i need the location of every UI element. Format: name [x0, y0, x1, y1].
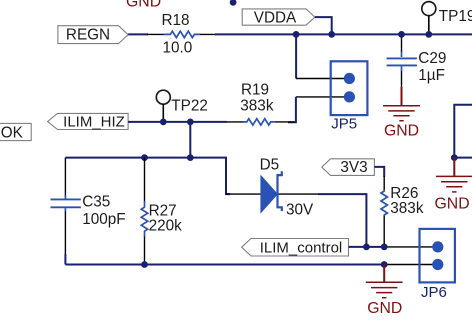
- node REGN flag: [58, 26, 128, 44]
- svg-text:JP5: JP5: [331, 115, 357, 132]
- svg-text:100pF: 100pF: [82, 211, 125, 228]
- wire JP5 pin 2 elbow down to R19 net: [296, 96, 345, 98]
- diode D5 (zener): [226, 156, 314, 218]
- junction bus/JP5 branch: [293, 31, 300, 38]
- junction bus/TP19: [425, 31, 432, 38]
- svg-text:3V3: 3V3: [340, 159, 367, 176]
- svg-text:R19: R19: [241, 81, 269, 98]
- wire ILIM_HIZ to R19: [128, 121, 226, 123]
- junction ILIM_control / R26: [381, 244, 388, 251]
- svg-text:C29: C29: [418, 50, 446, 67]
- svg-text:D5: D5: [260, 156, 280, 173]
- svg-text:TP19: TP19: [439, 8, 472, 25]
- wire ILIM_HIZ net down to lower rail: [189, 122, 191, 158]
- junction (cut off at top edge): [230, 0, 237, 6]
- svg-text:GND: GND: [367, 300, 402, 317]
- junction bottom rail / GND: [381, 261, 388, 268]
- svg-text:REGN: REGN: [66, 27, 110, 44]
- wire D5 to ILIM_control net: [318, 194, 366, 247]
- svg-text:ILIM_HIZ: ILIM_HIZ: [63, 113, 125, 130]
- capacitor C35: [51, 158, 126, 256]
- junction on bus at VDDA drop: [328, 31, 335, 38]
- wire (R18 left pin lead): [147, 33, 164, 35]
- wire (JP5 pin 1 lead): [296, 78, 345, 80]
- node 3V3 flag: [322, 159, 375, 176]
- junction bus/C29 branch: [398, 31, 405, 38]
- test point TP19: [422, 2, 472, 35]
- resistor R18: [164, 31, 201, 37]
- wire C35 bottom corner: [64, 254, 66, 265]
- node ILIM_control flag: [242, 239, 349, 257]
- wire C29 to ground: [401, 71, 403, 88]
- svg-text:C35: C35: [82, 193, 110, 210]
- resistor R19: [243, 119, 275, 125]
- junction TP22: [160, 119, 167, 126]
- svg-text:383k: 383k: [240, 97, 274, 114]
- ground top-right: [435, 158, 472, 213]
- svg-text:JP6: JP6: [421, 284, 447, 301]
- svg-text:220k: 220k: [149, 217, 183, 234]
- svg-text:GND: GND: [126, 0, 161, 11]
- wire 3V3 to R26: [374, 167, 384, 177]
- junction mid rail / ILIM_HIZ drop: [187, 154, 194, 161]
- node ILIM_HIZ flag: [48, 113, 129, 130]
- junction top-right: [451, 154, 458, 161]
- resistor R26: [381, 176, 424, 247]
- resistor R27: [141, 158, 182, 265]
- wire REGN to R18: [128, 33, 148, 35]
- svg-text:VDDA: VDDA: [254, 9, 297, 26]
- wire (JP6 pin 2 lead): [384, 264, 438, 266]
- wire VDDA bus to right edge: [215, 33, 472, 35]
- capacitor C29: [387, 50, 447, 84]
- wire ILIM_control to JP6 pin 1: [349, 246, 386, 248]
- svg-text:R18: R18: [162, 12, 190, 29]
- wire bus down to C29: [401, 34, 403, 52]
- wire D5 cathode lead: [279, 193, 320, 195]
- junction bottom rail / R27: [141, 261, 148, 268]
- svg-text:GND: GND: [435, 195, 470, 212]
- node OK label (cut off at left edge): [0, 123, 31, 141]
- svg-text:ILIM_control: ILIM_control: [260, 239, 343, 256]
- wire (R19 right pin lead): [275, 121, 295, 123]
- wire (R18 right pin lead): [200, 33, 216, 35]
- wire top-right bracket: [454, 105, 472, 158]
- connector JP6: [420, 229, 455, 301]
- junction mid rail / R27: [141, 154, 148, 161]
- svg-text:1µF: 1µF: [418, 67, 445, 84]
- wire mid rail: [65, 158, 230, 195]
- test point TP22: [156, 90, 208, 122]
- wire VDDA flag to bus: [315, 17, 332, 34]
- svg-text:383k: 383k: [390, 200, 424, 217]
- svg-text:TP22: TP22: [171, 98, 208, 115]
- ground below JP6 rail: [366, 265, 403, 318]
- wire (JP6 pin 1 lead): [384, 246, 438, 248]
- node VDDA flag: [242, 9, 315, 26]
- junction ILIM_HIZ drop: [187, 119, 194, 126]
- svg-text:OK: OK: [1, 124, 24, 141]
- svg-text:30V: 30V: [286, 201, 314, 218]
- connector JP5: [331, 61, 368, 132]
- wire bottom rail: [65, 264, 385, 266]
- ground under C29: [383, 87, 420, 140]
- svg-text:GND: GND: [384, 123, 419, 140]
- junction ILIM_control / D5: [363, 244, 370, 251]
- svg-text:10.0: 10.0: [163, 40, 193, 57]
- wire (R19 left pin lead): [226, 121, 244, 123]
- wire bus down to JP5 pin 1: [295, 34, 297, 78]
